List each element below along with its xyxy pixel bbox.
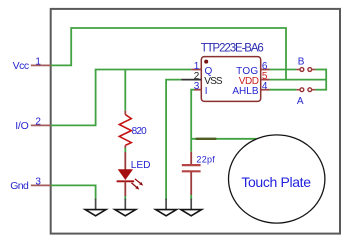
wire resistor to LED [124, 148, 126, 153]
svg-text:AHLB: AHLB [232, 86, 258, 97]
wire Q net drop to resistor [124, 70, 126, 111]
border frame [51, 9, 340, 234]
svg-text:A: A [297, 96, 304, 107]
touch plate electrode [229, 135, 325, 223]
svg-text:820: 820 [132, 126, 148, 137]
wire AHLB row [270, 89, 297, 91]
op-amp U1 TTP223E-BA6 body [201, 57, 260, 102]
ground 3 [156, 200, 177, 216]
node Gnd pin stub [31, 184, 51, 186]
op-amp U1 pin 5 stub [261, 79, 270, 81]
svg-text:I/O: I/O [15, 120, 28, 132]
LED D1 cathode bar [117, 180, 135, 182]
wire Vcc net: label stub to top rail down to VDD [51, 28, 286, 80]
jumper A left pad [300, 88, 304, 92]
wire A jumper right [315, 89, 326, 91]
wire B jumper right [315, 69, 326, 71]
wire cap to ground [190, 195, 192, 200]
wire pin3 I to cap junction [191, 90, 194, 152]
ground 1 [85, 200, 106, 216]
LED D1 triangle [118, 169, 133, 180]
svg-text:B: B [298, 56, 305, 67]
LED D1 emission arrow 1 [135, 179, 143, 186]
svg-text:Vcc: Vcc [13, 60, 29, 72]
svg-text:I: I [205, 86, 208, 97]
op-amp U1 pin 6 stub [261, 69, 270, 71]
svg-text:2: 2 [35, 117, 41, 128]
wire Gnd label to ground [51, 185, 96, 200]
LED D1 cathode lead [124, 181, 126, 196]
svg-text:3: 3 [35, 177, 41, 188]
wire jumper common vertical [325, 69, 327, 91]
resistor R1 bottom lead [124, 145, 126, 148]
op-amp U1 pin 2 stub [181, 79, 201, 81]
resistor R1 zigzag [119, 115, 131, 146]
op-amp U1 pin1 dot [204, 60, 208, 64]
svg-text:4: 4 [262, 81, 268, 92]
node Vcc pin stub [31, 64, 51, 66]
svg-text:LED: LED [131, 160, 151, 171]
svg-text:Touch Plate: Touch Plate [241, 174, 311, 190]
resistor R1 top lead [124, 111, 126, 115]
svg-text:Gnd: Gnd [10, 180, 29, 192]
jumper A right stub [312, 89, 316, 91]
capacitor C1 top lead [190, 152, 192, 165]
wire VDD row to jumper common [270, 79, 327, 81]
svg-text:3: 3 [194, 81, 200, 92]
jumper A right pad [308, 88, 312, 92]
svg-text:1: 1 [35, 57, 41, 68]
wire TOG row [270, 69, 297, 71]
capacitor C1 bottom plate [182, 170, 201, 172]
LED D1 emission arrow 2 [131, 183, 139, 190]
ground 4 [181, 200, 202, 216]
jumper B left pad [300, 68, 304, 72]
wire LED to ground [124, 196, 126, 200]
jumper B right stub [312, 69, 316, 71]
wire cap junction to touch plate [191, 138, 258, 140]
LED D1 anode lead [124, 152, 126, 170]
ground 2 [115, 200, 136, 216]
wire I/O to Q net [51, 70, 192, 126]
svg-text:22pf: 22pf [196, 154, 215, 164]
capacitor C1 bottom lead [190, 172, 192, 195]
capacitor C1 top plate [182, 164, 201, 166]
jumper B left pad stub [296, 69, 300, 71]
jumper A left pad stub [296, 89, 300, 91]
jumper B right pad [308, 68, 312, 72]
wire olive segment [196, 138, 217, 140]
svg-text:TTP223E-BA6: TTP223E-BA6 [201, 43, 264, 55]
op-amp U1 pin 4 stub [261, 89, 270, 91]
op-amp U1 pin 3 stub [194, 89, 201, 91]
op-amp U1 pin 1 stub [191, 69, 201, 71]
node I/O pin stub [31, 124, 51, 126]
wire VSS to ground [166, 80, 181, 200]
